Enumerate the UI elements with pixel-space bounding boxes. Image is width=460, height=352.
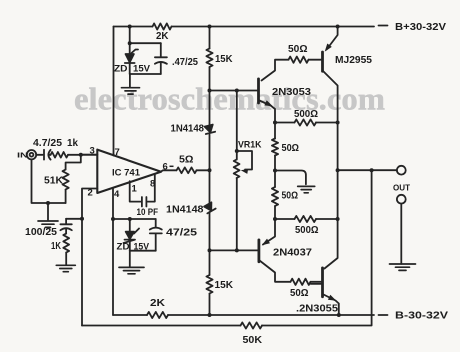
wire zener box2 top bbox=[113, 218, 156, 220]
resistor 15K bottom bbox=[209, 250, 211, 275]
op-amp U1 IC741 bbox=[97, 150, 161, 193]
ground mid-right bbox=[298, 186, 315, 192]
svg-text:500Ω: 500Ω bbox=[294, 109, 318, 120]
svg-text:2N3053: 2N3053 bbox=[272, 86, 311, 98]
svg-text:47/25: 47/25 bbox=[166, 227, 197, 239]
capacitor 4.7/25 input bbox=[36, 154, 42, 156]
wire input network hook to 51K bbox=[66, 155, 81, 170]
node 2N3053 base line bbox=[210, 90, 259, 92]
svg-text:5Ω: 5Ω bbox=[179, 155, 194, 166]
wire pin 3 input bbox=[81, 154, 98, 156]
wire MJ2955 collector / output column bbox=[323, 71, 338, 269]
wire mid ground branch bbox=[275, 171, 306, 185]
svg-text:ZD: ZD bbox=[114, 64, 128, 75]
svg-text:8: 8 bbox=[150, 179, 155, 190]
ground below zener box2 bbox=[129, 251, 131, 267]
svg-text:50K: 50K bbox=[243, 335, 263, 346]
zener ZD 15V top bbox=[129, 27, 131, 54]
wire pin 2 bbox=[82, 189, 97, 219]
wire out ground lead bbox=[400, 204, 402, 264]
svg-text:50Ω: 50Ω bbox=[282, 143, 300, 154]
svg-text:15K: 15K bbox=[215, 279, 234, 291]
ground below 1K bbox=[56, 265, 75, 271]
diode D2 1N4148 bbox=[209, 170, 211, 203]
capacitor 100/25 bbox=[66, 218, 82, 220]
wire B+ top rail bbox=[114, 26, 375, 28]
svg-text:IN: IN bbox=[17, 150, 28, 159]
transistor Q2 2N3053 bbox=[257, 79, 260, 103]
resistor 50ohm bottom bbox=[291, 279, 311, 285]
svg-text:15K: 15K bbox=[215, 53, 233, 65]
capacitor 10PF pins 1-8 bbox=[130, 181, 141, 201]
svg-text:B-30-32V: B-30-32V bbox=[395, 310, 448, 321]
node 2N4037 base line bbox=[210, 249, 259, 251]
svg-text:7: 7 bbox=[115, 147, 120, 158]
resistor 50ohm mid2 bbox=[272, 187, 278, 206]
svg-text:50Ω: 50Ω bbox=[282, 191, 299, 202]
wire op-amp output to node bbox=[161, 170, 210, 171]
resistor 500ohm lower bbox=[275, 218, 338, 220]
wire zener box2 bottom bbox=[130, 250, 156, 252]
svg-text:15V: 15V bbox=[134, 242, 150, 253]
wire feedback 50K line bbox=[82, 170, 372, 325]
zener ZD 15V bottom bbox=[129, 219, 131, 232]
wire output line bbox=[338, 169, 397, 171]
svg-text:VR1K: VR1K bbox=[238, 140, 262, 150]
svg-text:3: 3 bbox=[90, 146, 95, 157]
svg-text:51K: 51K bbox=[44, 175, 63, 187]
resistor 5 ohm bbox=[177, 167, 197, 173]
diode D1 1N4148 bbox=[209, 91, 211, 126]
wire input ground bus bbox=[32, 160, 66, 203]
resistor 500ohm upper bbox=[275, 122, 338, 124]
resistor 1k input bbox=[51, 152, 68, 158]
svg-text:MJ2955: MJ2955 bbox=[335, 55, 372, 66]
svg-text:50Ω: 50Ω bbox=[288, 44, 308, 55]
transistor Q4 2N3055 bbox=[321, 268, 324, 297]
resistor 1K bbox=[63, 234, 69, 253]
resistor 50ohm top bbox=[289, 57, 309, 63]
svg-text:10 PF: 10 PF bbox=[137, 207, 159, 217]
resistor 50ohm mid1 bbox=[274, 123, 276, 139]
wire zener box top bbox=[130, 42, 161, 44]
svg-text:2: 2 bbox=[88, 188, 93, 199]
svg-text:15V: 15V bbox=[133, 64, 151, 75]
wire op-amp V- column bbox=[112, 188, 114, 315]
transistor Q1 MJ2955 bbox=[327, 27, 338, 50]
svg-text:4.7/25: 4.7/25 bbox=[33, 138, 62, 149]
svg-text:1k: 1k bbox=[67, 138, 78, 149]
svg-text:1N4148: 1N4148 bbox=[171, 123, 205, 135]
ground OUT bbox=[390, 264, 416, 270]
resistor 51K bbox=[63, 170, 69, 190]
wire op-amp V+ column bbox=[113, 27, 115, 156]
svg-text:50Ω: 50Ω bbox=[290, 288, 309, 299]
svg-text:100/25: 100/25 bbox=[25, 226, 57, 238]
connector OUT top bbox=[397, 166, 406, 175]
ground input bbox=[47, 203, 49, 220]
capacitor 47/25 bottom bbox=[155, 219, 157, 227]
trimmer VR1K bbox=[234, 160, 240, 179]
connector IN jack bbox=[27, 150, 36, 159]
svg-text:1N4148: 1N4148 bbox=[166, 204, 204, 216]
capacitor .47/25 top bbox=[160, 43, 162, 57]
svg-text:.47/25: .47/25 bbox=[172, 57, 198, 68]
svg-text:2N4037: 2N4037 bbox=[273, 247, 312, 259]
svg-text:2K: 2K bbox=[150, 298, 166, 309]
wire B- bottom rail bbox=[113, 314, 374, 316]
svg-text:4: 4 bbox=[114, 189, 120, 200]
svg-text:1: 1 bbox=[132, 184, 138, 195]
svg-text:500Ω: 500Ω bbox=[295, 225, 319, 236]
connector OUT bottom bbox=[397, 195, 406, 204]
svg-text:ZD: ZD bbox=[117, 242, 130, 253]
resistor 50K feedback bbox=[241, 322, 263, 328]
svg-text:B+30-32V: B+30-32V bbox=[395, 22, 446, 33]
wire pin2 feedback column bbox=[81, 219, 83, 326]
svg-text:6: 6 bbox=[163, 161, 168, 172]
svg-text:IC 741: IC 741 bbox=[112, 167, 141, 178]
svg-text:OUT: OUT bbox=[393, 182, 411, 192]
resistor R 2K bottom bbox=[147, 312, 168, 318]
resistor R 2K top bbox=[153, 23, 172, 29]
transistor Q3 2N4037 bbox=[263, 219, 275, 245]
resistor 15K top bbox=[209, 27, 211, 49]
svg-text:1K: 1K bbox=[51, 241, 62, 252]
svg-text:electroschematics.com: electroschematics.com bbox=[74, 81, 385, 117]
wire VR column bbox=[236, 91, 238, 160]
svg-text:2K: 2K bbox=[156, 31, 169, 42]
wire zener box bottom bbox=[130, 73, 161, 75]
svg-text:.2N3055: .2N3055 bbox=[296, 303, 338, 315]
ground below top zener box bbox=[129, 74, 131, 87]
